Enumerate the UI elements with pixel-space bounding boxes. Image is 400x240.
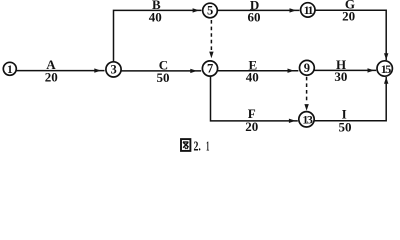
- svg-text:60: 60: [248, 9, 261, 24]
- svg-text:9: 9: [304, 61, 310, 75]
- svg-text:50: 50: [339, 120, 352, 135]
- svg-text:40: 40: [149, 9, 162, 24]
- svg-text:13: 13: [302, 113, 313, 127]
- svg-text:30: 30: [334, 69, 347, 84]
- svg-text:1: 1: [206, 139, 209, 154]
- svg-text:1: 1: [7, 64, 13, 76]
- svg-text:20: 20: [342, 9, 355, 24]
- svg-text:50: 50: [157, 70, 170, 85]
- svg-text:15: 15: [381, 62, 392, 76]
- svg-text:2.: 2.: [194, 139, 201, 154]
- svg-text:5: 5: [207, 4, 213, 18]
- svg-text:7: 7: [207, 62, 213, 76]
- svg-text:3: 3: [110, 63, 116, 77]
- svg-text:20: 20: [45, 70, 58, 85]
- svg-text:20: 20: [245, 119, 258, 134]
- svg-text:40: 40: [246, 70, 259, 85]
